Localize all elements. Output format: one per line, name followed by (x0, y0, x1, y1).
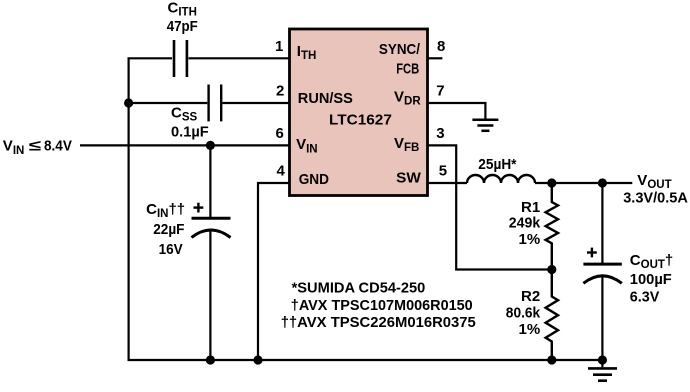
label R1 (509, 199, 541, 248)
wire: C_ITH right plate to pin 1 (189, 57, 290, 59)
svg-text:0.1µF: 0.1µF (171, 123, 209, 140)
capacitor C_IN polarized (192, 218, 231, 237)
wire: COUT bottom lead (601, 275, 603, 360)
svg-text:100µF: 100µF (630, 271, 672, 288)
wire: COUT top lead (601, 183, 603, 264)
svg-text:SYNC/: SYNC/ (379, 41, 421, 58)
svg-text:16V: 16V (159, 241, 183, 258)
svg-text:8.4V: 8.4V (44, 138, 72, 155)
svg-text:SW: SW (396, 170, 422, 187)
wire: CIN bottom lead (209, 229, 211, 360)
node: COUT bottom junction (598, 355, 607, 364)
inductor L1 25uH (467, 175, 535, 183)
svg-text:FCB: FCB (396, 60, 419, 77)
label C_OUT value (630, 252, 673, 306)
svg-text:3: 3 (436, 125, 444, 142)
capacitor C_ITH (174, 40, 187, 77)
op-amp U1 LTC1627 IC body (290, 29, 428, 196)
svg-text:6.3V: 6.3V (630, 289, 660, 306)
svg-text:1: 1 (275, 38, 283, 55)
label VIN input (3, 138, 72, 157)
svg-text:47pF: 47pF (167, 18, 198, 35)
resistor R2 80.6k (546, 270, 558, 361)
wire: RUN/SS pin2 left segment (129, 102, 208, 104)
svg-text:22µF: 22µF (153, 221, 184, 238)
node: feedback divider junction (547, 265, 556, 274)
wire: pin 7 VDR to ground (428, 103, 486, 119)
capacitor C_SS (209, 85, 222, 122)
svg-text:6: 6 (276, 125, 284, 142)
svg-text:80.6k: 80.6k (506, 304, 541, 321)
plus sign C_IN (194, 203, 204, 213)
wire: pin 5 SW to inductor (428, 182, 468, 184)
wire: left ground vertical bus (129, 58, 172, 360)
svg-text:249k: 249k (509, 215, 541, 232)
node: R2 bottom junction (547, 355, 556, 364)
ground symbol (VDR) (472, 120, 498, 131)
svg-text:5: 5 (439, 163, 447, 180)
svg-text:7: 7 (436, 83, 444, 100)
svg-text:LTC1627: LTC1627 (329, 112, 392, 129)
label R2 (506, 288, 541, 338)
svg-text:GND: GND (299, 171, 329, 188)
node: COUT top junction (598, 178, 607, 187)
svg-text:1%: 1% (519, 321, 541, 338)
node: CIN top junction (206, 141, 215, 150)
wire: C_SS right plate to pin 2 (222, 102, 289, 104)
svg-text:≤: ≤ (29, 138, 41, 155)
capacitor C_OUT polarized (583, 264, 621, 283)
svg-text:25µH*: 25µH* (478, 156, 516, 173)
wire: pin 3 VFB feedback to divider (428, 145, 552, 269)
resistor R1 249k (546, 183, 558, 270)
node: GND rail junction (253, 355, 262, 364)
node: CSS-ground junction (124, 98, 133, 107)
label C_SS value (171, 104, 209, 140)
svg-text:R2: R2 (521, 288, 540, 305)
svg-text:4: 4 (277, 163, 286, 180)
svg-text:RUN/SS: RUN/SS (298, 90, 353, 107)
label C_IN value (146, 201, 185, 258)
wire: CIN top lead (209, 145, 211, 218)
label VOUT (623, 172, 688, 207)
svg-text:8: 8 (437, 38, 445, 55)
svg-text:R1: R1 (521, 199, 540, 216)
svg-text:†AVX TPSC107M006R0150: †AVX TPSC107M006R0150 (291, 297, 473, 314)
node: CIN bottom junction (206, 355, 215, 364)
label C_ITH value (167, 0, 198, 35)
svg-text:2: 2 (276, 83, 284, 100)
wire: inductor to VOUT (535, 182, 632, 184)
plus sign C_OUT (587, 248, 597, 258)
svg-text:*SUMIDA CD54-250: *SUMIDA CD54-250 (292, 279, 426, 296)
wire: bottom ground rail (128, 359, 603, 361)
wire: VIN input to pin 6 (80, 144, 290, 146)
wire: GND pin4 to ground rail (258, 183, 290, 360)
svg-text:3.3V/0.5A: 3.3V/0.5A (623, 190, 688, 207)
svg-text:1%: 1% (519, 231, 541, 248)
ground symbol (output) (588, 360, 617, 381)
wire: pin 8 stub (428, 57, 443, 59)
svg-text:††AVX TPSC226M016R0375: ††AVX TPSC226M016R0375 (281, 314, 476, 331)
node: VOUT/R1 junction (547, 178, 556, 187)
